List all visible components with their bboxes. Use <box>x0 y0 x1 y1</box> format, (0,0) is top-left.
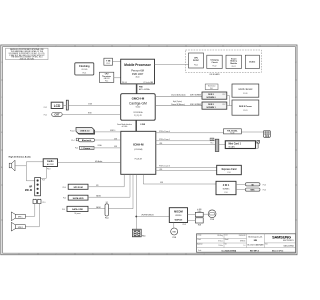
EC U: MICOM KB3310 <box>169 208 187 227</box>
svg-text:Design: Design <box>197 235 201 237</box>
svg-text:Sheet 1 OF 13: Sheet 1 OF 13 <box>272 249 283 252</box>
svg-text:2008. 04. 08 (TUE): 2008. 04. 08 (TUE) <box>20 58 35 60</box>
wire MICOM to KBD <box>188 213 196 215</box>
svg-text:SAMSUNG: SAMSUNG <box>272 234 291 239</box>
connector speaker header L <box>33 199 37 204</box>
svg-text:X-DMI: X-DMI <box>140 124 145 126</box>
connector ODD slimline <box>105 202 109 219</box>
svg-text:PJ-8: PJ-8 <box>198 225 201 227</box>
svg-text:SS.Wang: SS.Wang <box>217 235 223 237</box>
module Camera <box>75 144 102 150</box>
wire MICOM to touchpad <box>188 219 196 221</box>
fan connector <box>171 228 178 239</box>
bus DMI GMCH to ICH <box>117 120 145 131</box>
svg-text:WQFN-48: WQFN-48 <box>175 218 183 221</box>
svg-text:PU-9: PU-9 <box>47 168 51 170</box>
wire USB ICH to express card <box>156 169 217 171</box>
svg-text:Circuit: Circuit <box>212 61 218 64</box>
svg-text:Thermistor: Thermistor <box>102 75 111 78</box>
svg-text:4: 4 <box>167 254 168 256</box>
frame zone numbers <box>1 45 298 255</box>
svg-text:45um: 45um <box>135 76 140 78</box>
svg-text:Doc BA41-00985A: Doc BA41-00985A <box>222 249 237 252</box>
svg-text:ELECTRONICS: ELECTRONICS <box>283 240 294 242</box>
svg-text:(676-BGA): (676-BGA) <box>134 148 143 151</box>
speaker icon internal <box>9 160 15 171</box>
connector internal KBD <box>195 208 203 226</box>
svg-text:LPC/FWH DEBUG: LPC/FWH DEBUG <box>141 215 154 217</box>
svg-text:High Definition Audio: High Definition Audio <box>9 156 32 159</box>
svg-text:USB: USB <box>159 143 162 145</box>
drive SATA ODD <box>62 206 88 215</box>
wire to audio codec input <box>26 161 43 163</box>
svg-text:KB3310: KB3310 <box>175 215 181 217</box>
svg-text:PJ-4: PJ-4 <box>62 209 65 211</box>
battery: Smart Battery Module <box>226 55 241 68</box>
svg-text:PU-4: PU-4 <box>63 187 67 189</box>
svg-text:MICOM: MICOM <box>174 210 183 213</box>
svg-text:SPI ROM: SPI ROM <box>73 187 82 189</box>
svg-text:PJ-2: PJ-2 <box>44 107 47 109</box>
notes block <box>6 48 48 60</box>
connector Express Card <box>217 165 242 174</box>
svg-text:3: 3 <box>204 254 205 256</box>
svg-text:PU-8: PU-8 <box>183 224 187 226</box>
svg-text:USB: USB <box>114 146 117 148</box>
wire PCIE lane 3 ICH to express card <box>156 166 217 168</box>
audio codec U: ALC262 <box>43 159 57 171</box>
svg-text:K.H.Lee: K.H.Lee <box>218 241 223 243</box>
wire PCIE lane 0 ICH to LAN <box>156 131 224 133</box>
svg-text:HD Audio: HD Audio <box>95 160 102 163</box>
CPU thermistor box <box>99 72 113 82</box>
sheet frame outer border <box>1 44 197 46</box>
wire MICOM to FAN <box>173 223 175 229</box>
module Mini Card 1 W-LAN <box>219 141 256 149</box>
svg-text:7: 7 <box>56 254 57 256</box>
svg-text:SATA ODD: SATA ODD <box>72 208 83 211</box>
svg-text:PJ-7: PJ-7 <box>223 104 226 106</box>
svg-text:4: 4 <box>167 45 168 47</box>
svg-text:Mini Card 1: Mini Card 1 <box>229 143 242 145</box>
title block SAMSUNG logo <box>265 234 294 247</box>
svg-text:PCIE x1 Lane 1: PCIE x1 Lane 1 <box>159 139 170 141</box>
svg-text:PCIE x1 Lane 0: PCIE x1 Lane 0 <box>159 131 170 133</box>
svg-text:PQ 7Q-7R: PQ 7Q-7R <box>134 115 142 117</box>
wire USB ICH to 2in1 <box>143 174 216 184</box>
junction LPC node <box>135 216 137 218</box>
svg-text:8: 8 <box>19 45 20 47</box>
svg-text:SPK L: SPK L <box>18 216 23 218</box>
svg-text:Bluetooth: Bluetooth <box>82 139 92 142</box>
wire SODIMM0 to DDR power <box>227 96 230 106</box>
wire to speaker R <box>25 204 39 227</box>
svg-text:3: 3 <box>204 45 205 47</box>
svg-text:PU-4E-4R: PU-4E-4R <box>135 159 143 161</box>
svg-text:PJ-5: PJ-5 <box>142 235 145 237</box>
regulator VCCP / DC-DC <box>232 84 259 97</box>
flash U: SPI ROM <box>63 184 88 189</box>
svg-text:GMCH-M: GMCH-M <box>132 97 145 101</box>
regulator DDR II Power <box>232 100 259 115</box>
svg-text:MB: MB <box>254 240 258 242</box>
svg-text:Size: Size <box>265 244 268 246</box>
svg-text:PJ-9: PJ-9 <box>42 180 45 182</box>
power group dashed box ON BOARD <box>186 50 262 72</box>
southbridge U: ICH9-M <box>121 131 156 174</box>
svg-text:PU-7: PU-7 <box>210 88 213 90</box>
card reader 2 IN 1 <box>216 181 236 194</box>
frame zone ticks top <box>38 45 260 47</box>
connector LVDS bar <box>66 100 68 110</box>
svg-text:PU-10: PU-10 <box>194 65 198 67</box>
regulator DC/DC <box>245 55 259 68</box>
svg-text:PU-3-9: PU-3-9 <box>122 82 127 84</box>
svg-text:SODIMM 1: SODIMM 1 <box>206 107 215 109</box>
module Bluetooth <box>71 138 94 142</box>
title block bottom row <box>198 249 283 252</box>
wire HD Audio codec to ICH <box>58 160 121 163</box>
wire audio net vertical <box>26 162 34 181</box>
frame zone ticks bottom <box>38 253 186 255</box>
svg-text:PJ-4: PJ-4 <box>75 148 78 150</box>
sheet frame inner border <box>3 47 296 254</box>
svg-text:Brahmaputra-DL: Brahmaputra-DL <box>248 235 262 238</box>
svg-text:2008.04.08: 2008.04.08 <box>239 235 246 237</box>
LCD panel box <box>44 102 63 109</box>
wire SPI <box>88 174 124 187</box>
drive SATA HDD <box>63 195 88 200</box>
svg-text:USB: USB <box>160 182 163 184</box>
svg-text:DDR II 667MB/S: DDR II 667MB/S <box>190 104 201 106</box>
wire KBD to touchpad circle <box>203 213 208 215</box>
svg-text:Camera: Camera <box>83 148 91 150</box>
svg-text:L2 Cache 3MB: L2 Cache 3MB <box>143 82 153 84</box>
wire USB ICH to mini card <box>156 143 216 145</box>
svg-text:CRT: CRT <box>54 114 60 117</box>
wire SATA 0 <box>88 174 130 197</box>
thermistor box DDR <box>205 84 218 90</box>
svg-text:7: 7 <box>56 45 57 47</box>
svg-text:RGB: RGB <box>88 113 91 115</box>
svg-text:PU-7E: PU-7E <box>230 133 234 135</box>
wire LPC to debug <box>135 174 137 229</box>
svg-text:MMC: MMC <box>250 190 255 192</box>
svg-text:MIC-IN: MIC-IN <box>25 190 33 192</box>
svg-text:Clocking: Clocking <box>79 65 90 68</box>
svg-text:PJ-8: PJ-8 <box>173 237 176 239</box>
svg-text:PU-6: PU-6 <box>82 72 86 74</box>
svg-text:2 IN 1: 2 IN 1 <box>223 184 230 187</box>
svg-text:PJ-4: PJ-4 <box>71 140 74 142</box>
connector DDR II SODIMM 0 <box>202 92 227 99</box>
wire RGB CRT to GMCH <box>62 113 120 115</box>
chipset U: GMCH-M Cantiga-GM <box>121 94 156 121</box>
switch SW minicard <box>210 138 214 145</box>
svg-text:8: 8 <box>19 254 20 256</box>
connector mini card slot <box>215 139 219 151</box>
connector DDR II SODIMM 1 <box>202 102 227 109</box>
wire LVDS LCD to GMCH <box>63 104 121 106</box>
svg-text:ICH9-M: ICH9-M <box>133 142 144 146</box>
svg-text:DDR II: DDR II <box>208 94 214 96</box>
svg-text:USB: USB <box>114 138 117 140</box>
svg-text:GMLV74: GMLV74 <box>104 78 110 80</box>
svg-text:PJ-2: PJ-2 <box>44 115 47 117</box>
wire speaker to audio codec <box>15 165 26 167</box>
title block left fields <box>197 234 245 248</box>
svg-text:PU-5: PU-5 <box>106 63 110 65</box>
svg-text:6: 6 <box>93 254 94 256</box>
wire LPC to MICOM <box>136 215 169 217</box>
svg-text:SATA HDD: SATA HDD <box>73 197 84 200</box>
svg-text:USB2.0: USB2.0 <box>110 130 115 132</box>
svg-text:PU-5: PU-5 <box>105 80 108 82</box>
svg-text:1: 1 <box>278 45 279 47</box>
svg-text:PJ-6: PJ-6 <box>263 184 266 186</box>
thermal sensor box T-SB <box>104 58 113 65</box>
svg-text:x4 1GB/s: x4 1GB/s <box>122 126 128 128</box>
CPU U: Mobile Processor <box>121 59 155 84</box>
svg-text:DDR II Power: DDR II Power <box>239 105 252 108</box>
label HP MIC-IN <box>25 186 33 192</box>
svg-text:BLOCK DIAGRAM: BLOCK DIAGRAM <box>248 243 264 246</box>
wire Bluetooth to ICH <box>95 138 121 140</box>
svg-text:Module: Module <box>230 63 237 65</box>
connector CRT <box>44 113 62 117</box>
memory channel B bus GMCH to SODIMM1 <box>155 100 202 106</box>
wire codec to jack strip <box>41 167 47 179</box>
connector USB II 2.0 flag <box>70 128 95 135</box>
svg-text:PJ-4-8: PJ-4-8 <box>70 130 75 132</box>
svg-text:5: 5 <box>130 254 131 256</box>
regulator CPU DC/DC <box>189 53 204 68</box>
svg-text:PU-11: PU-11 <box>243 110 247 112</box>
svg-text:PCIE x1 Lane 3: PCIE x1 Lane 3 <box>159 166 170 168</box>
speaker L <box>11 212 25 221</box>
svg-text:LVDS: LVDS <box>88 104 92 106</box>
wire to speaker L <box>25 204 35 217</box>
svg-text:USB: USB <box>159 169 162 171</box>
svg-text:FSB 1067: FSB 1067 <box>132 72 144 76</box>
svg-text:Cantiga-GM: Cantiga-GM <box>129 102 147 106</box>
svg-text:PJ-7: PJ-7 <box>223 94 226 96</box>
wire SODIMM1 to DDR power <box>227 105 232 107</box>
wire 2in1 to MMC <box>236 189 245 191</box>
svg-text:Express Card: Express Card <box>222 169 237 171</box>
debug 7-segment display <box>132 229 145 237</box>
svg-text:VCCP / DC-DC: VCCP / DC-DC <box>238 89 253 91</box>
svg-text:Scale: Scale <box>198 250 202 252</box>
svg-text:HP: HP <box>29 186 33 188</box>
svg-text:Mobile Processor: Mobile Processor <box>124 63 151 67</box>
svg-text:1.0: 1.0 <box>243 245 245 247</box>
svg-text:SODIMM 0: SODIMM 0 <box>206 97 215 99</box>
svg-text:GL40: GL40 <box>136 107 141 109</box>
svg-text:PU-12: PU-12 <box>232 66 236 68</box>
clock generator U: Clocking CK-505 <box>75 63 94 75</box>
svg-text:2: 2 <box>241 45 242 47</box>
svg-text:USB II 2.0: USB II 2.0 <box>80 131 90 133</box>
svg-text:REV MP1.0: REV MP1.0 <box>250 250 259 252</box>
svg-text:Y.S.Kim: Y.S.Kim <box>218 245 223 247</box>
svg-text:SPK R: SPK R <box>18 227 24 229</box>
wire CPU to CPU DC/DC <box>155 64 189 66</box>
title block <box>197 234 296 252</box>
wire USB flag to ICH <box>95 130 121 132</box>
svg-text:PJ-6: PJ-6 <box>263 190 266 192</box>
svg-text:DDR II: DDR II <box>208 104 214 106</box>
title block document name <box>248 235 264 246</box>
svg-text:Channel B (Balance): Channel B (Balance) <box>171 104 185 106</box>
frame zone ticks sides <box>1 80 297 220</box>
svg-text:SD/MMC: SD/MMC <box>223 188 231 190</box>
wire Camera to ICH <box>94 146 121 148</box>
svg-text:W-LAN: W-LAN <box>229 145 236 148</box>
wire PCIE lane 1 ICH to mini card <box>156 139 216 141</box>
svg-text:T SB: T SB <box>106 60 111 62</box>
card MMC <box>245 188 266 192</box>
bus FSB CPU to GMCH <box>137 84 150 94</box>
svg-text:DDR II 667MB/S: DDR II 667MB/S <box>190 95 201 97</box>
svg-text:DC/DC: DC/DC <box>193 60 200 62</box>
svg-text:PU-10: PU-10 <box>243 93 247 95</box>
svg-text:PJ-4: PJ-4 <box>63 198 66 200</box>
wire 2in1 to SD <box>236 183 245 185</box>
svg-text:ALC262: ALC262 <box>47 163 54 166</box>
svg-text:DC/DC: DC/DC <box>249 62 256 64</box>
svg-text:PJ-6: PJ-6 <box>224 192 227 194</box>
svg-text:CK-505: CK-505 <box>81 69 87 71</box>
wire SATA 1 <box>88 174 133 209</box>
svg-text:ON BOARD: ON BOARD <box>209 73 220 76</box>
svg-text:NP-R505: NP-R505 <box>240 241 246 243</box>
speaker R <box>11 222 25 231</box>
card SD <box>245 183 266 187</box>
connector speaker header R <box>38 199 46 204</box>
memory channel A bus GMCH to SODIMM0 <box>155 94 202 97</box>
svg-text:LCD: LCD <box>54 104 61 108</box>
svg-text:5: 5 <box>130 45 131 47</box>
svg-text:Audio: Audio <box>47 160 54 163</box>
wire LAN to RJ45 <box>241 131 263 133</box>
charger: Charging Circuit <box>207 55 222 68</box>
antenna W-LAN <box>256 140 260 148</box>
svg-text:PJ-6: PJ-6 <box>227 172 230 174</box>
svg-text:Check: Check <box>197 239 201 241</box>
connector RJ45 <box>264 131 271 138</box>
svg-text:PJ-9: PJ-9 <box>43 202 46 204</box>
connector audio jack strip HP/MIC <box>35 178 45 196</box>
LAN U: RTL 8102EL <box>224 129 242 135</box>
wire thermistor to CPU <box>114 77 121 79</box>
svg-text:PJ-6: PJ-6 <box>211 143 214 145</box>
svg-text:6: 6 <box>93 45 94 47</box>
wire T-SB to CPU <box>113 61 121 63</box>
svg-text:PJ-8: PJ-8 <box>211 219 214 221</box>
touchpad circle <box>208 210 216 221</box>
svg-text:PU-12: PU-12 <box>213 65 217 67</box>
svg-text:RTL 8102EL: RTL 8102EL <box>227 130 238 132</box>
